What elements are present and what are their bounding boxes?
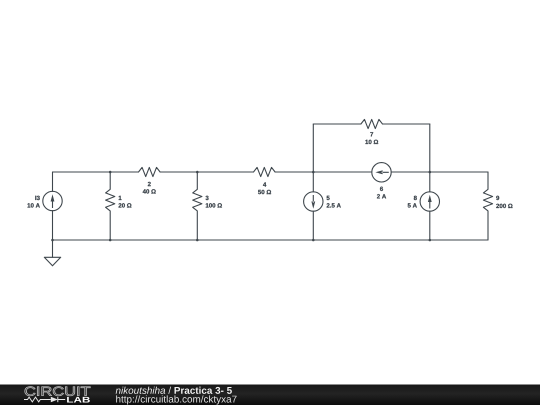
arrow of source CS5 (down) bbox=[311, 195, 315, 209]
label R3 value 100 ohm bbox=[206, 203, 222, 207]
label CS6 name bbox=[380, 187, 383, 191]
arrow of source CS8 (up) bbox=[428, 195, 432, 209]
wire upper loop right vertical bbox=[429, 124, 431, 172]
label CS8 name bbox=[414, 196, 417, 200]
label R3 name bbox=[206, 196, 209, 200]
label R7 name bbox=[370, 132, 373, 136]
wire top rail segment 4 bbox=[391, 171, 488, 173]
current source I3 body bbox=[52, 172, 54, 191]
ground symbol triangle bbox=[44, 257, 60, 266]
label R7 value 10 ohm bbox=[365, 140, 378, 144]
logo text LAB bbox=[67, 397, 90, 403]
junction dot node at CS8 top bbox=[429, 171, 432, 174]
junction dot bottom rail at CS8 bbox=[429, 239, 432, 242]
junction dot node at CS5 top bbox=[312, 171, 315, 174]
label R4 value 50 ohm bbox=[258, 190, 271, 194]
arrow of source CS6 (left) bbox=[375, 170, 388, 174]
ground stem wire bbox=[52, 240, 54, 257]
label I3 name bbox=[35, 196, 39, 200]
wire top rail segment 1 bbox=[53, 171, 139, 173]
wire upper loop top left segment bbox=[313, 123, 361, 125]
wire top rail segment 2 bbox=[160, 171, 253, 173]
wire bottom rail bbox=[53, 239, 489, 241]
label R4 name bbox=[263, 182, 266, 186]
label CS8 value 5 A bbox=[408, 203, 417, 207]
junction dot bottom rail at ground bbox=[51, 239, 54, 242]
resistor R2 zigzag bbox=[139, 167, 161, 176]
logo resistor-diode symbol bbox=[24, 397, 65, 402]
label R9 name bbox=[496, 196, 499, 200]
resistor R1 bbox=[106, 172, 115, 240]
footer title: nikoutshiha / Practica 3- 5 bbox=[116, 387, 232, 394]
footer bar bbox=[0, 385, 540, 405]
resistor R3 bbox=[193, 172, 202, 240]
junction dot top rail at R3 bbox=[196, 171, 199, 174]
wire upper loop top right segment bbox=[383, 123, 430, 125]
label CS5 value 2.5 A bbox=[327, 203, 341, 207]
label R1 value 20 ohm bbox=[119, 203, 132, 207]
junction dot bottom rail at R1 bbox=[109, 239, 112, 242]
current source CS8 body bbox=[429, 172, 431, 192]
label R2 value 40 ohm bbox=[143, 189, 156, 193]
resistor R9 bbox=[483, 172, 492, 240]
junction dot top rail at R1 bbox=[109, 171, 112, 174]
junction dot bottom rail at CS5 bbox=[312, 239, 315, 242]
resistor R7 zigzag bbox=[361, 119, 383, 128]
label R9 value 200 ohm bbox=[496, 204, 512, 208]
arrow of source I3 (up) bbox=[51, 194, 55, 208]
label I3 value 10 A bbox=[28, 203, 40, 207]
label CS6 value 2 A bbox=[377, 194, 386, 198]
label R1 name bbox=[119, 196, 122, 200]
current source CS5 body bbox=[312, 172, 314, 192]
footer url text line bbox=[116, 395, 236, 404]
current source CS6 body bbox=[372, 163, 391, 182]
junction dot bottom rail at R3 bbox=[196, 239, 199, 242]
wire top rail segment 3 bbox=[275, 171, 372, 173]
label R2 name bbox=[148, 182, 151, 186]
label CS5 name bbox=[327, 196, 330, 200]
logo text CIRCUIT bbox=[25, 387, 90, 396]
wire upper loop left vertical bbox=[312, 124, 314, 172]
resistor R4 zigzag bbox=[254, 167, 276, 176]
